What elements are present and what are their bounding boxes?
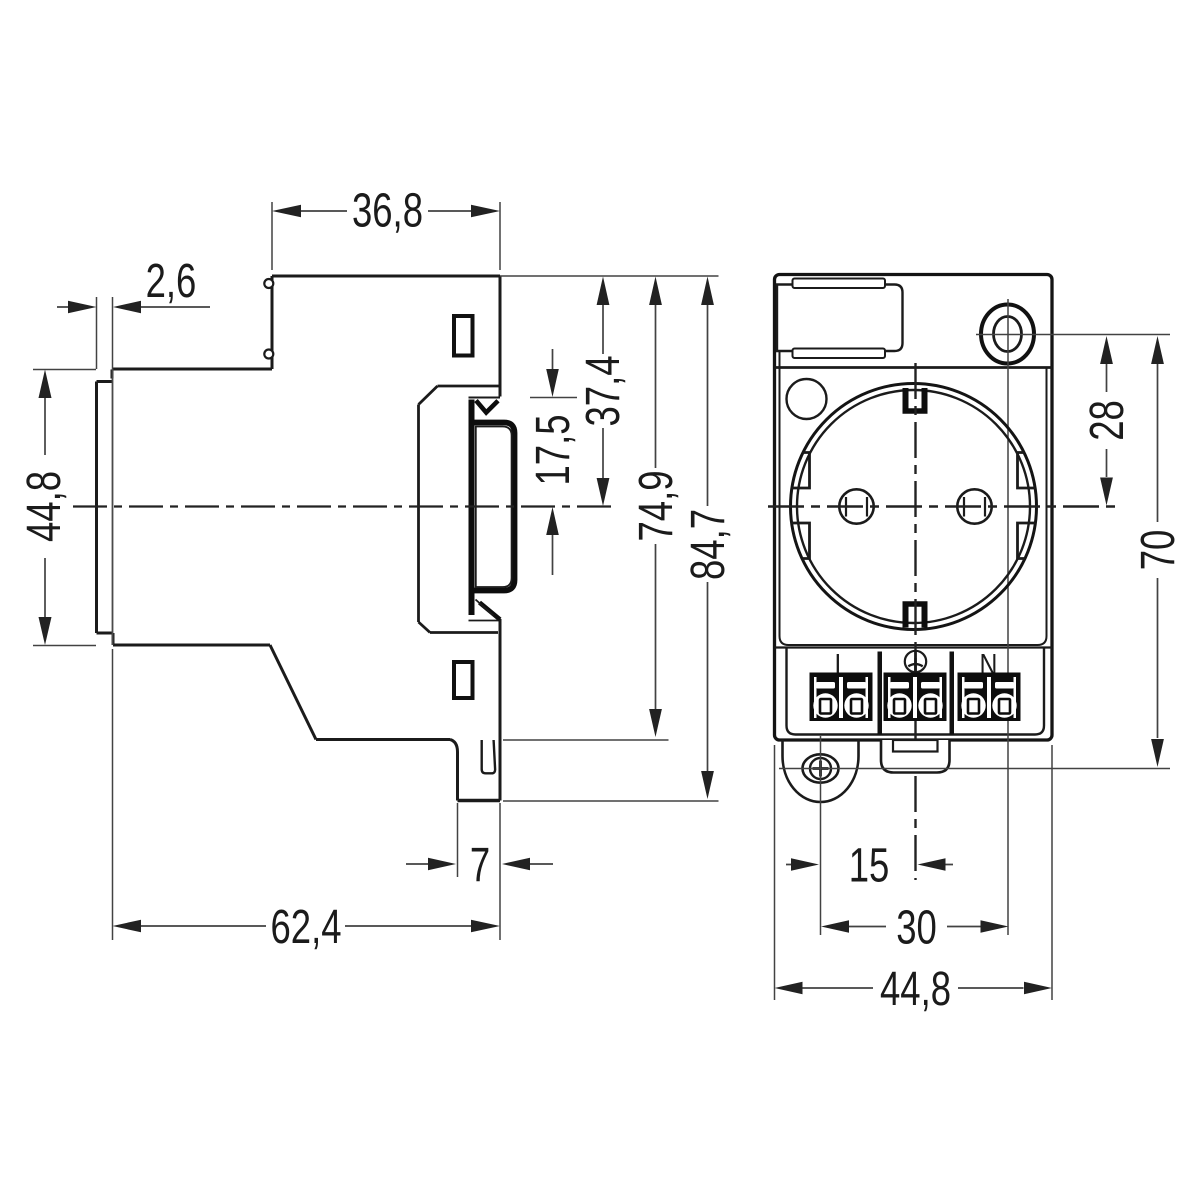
DIN rail profile thick xyxy=(472,400,515,620)
dim 15 line and arrows xyxy=(786,864,953,866)
svg-text:7: 7 xyxy=(470,838,490,892)
top screw horizontal line / 28-70 top extension xyxy=(976,334,1170,336)
dim 44,8 extension lines xyxy=(33,370,96,646)
svg-text:30: 30 xyxy=(896,901,937,955)
side view body outline top xyxy=(113,276,500,740)
side view centerline xyxy=(73,505,617,507)
dim 7 ext line xyxy=(457,803,459,877)
rail clip bar bottom xyxy=(793,349,886,359)
dim 84,7 ext line xyxy=(503,800,719,802)
dim 17,5 arrows xyxy=(552,349,554,575)
socket face inset outline xyxy=(780,369,1047,646)
svg-text:36,8: 36,8 xyxy=(352,184,423,238)
side view inner wall line xyxy=(112,369,114,645)
top section left inset line xyxy=(779,288,781,368)
svg-text:44,8: 44,8 xyxy=(17,471,71,542)
terminal section divider xyxy=(775,646,1053,648)
dim 44,8 line xyxy=(44,398,46,617)
earth pin hole left xyxy=(839,489,873,523)
DIN rail inner thin lines xyxy=(469,427,512,621)
socket top notch xyxy=(903,388,928,411)
side view hook underside xyxy=(469,397,501,399)
svg-text:44,8: 44,8 xyxy=(880,962,951,1016)
bottom screw center cross xyxy=(813,761,829,777)
side view upper slot xyxy=(454,316,473,356)
dim 7 line and arrows xyxy=(406,863,553,865)
bottom screw inner circle xyxy=(810,758,831,779)
bottom screw horizontal line / 70 bottom extension xyxy=(779,768,1170,770)
dim 36,8 extension lines xyxy=(272,202,500,270)
socket outer circle xyxy=(791,384,1037,630)
side view left wall xyxy=(97,370,114,646)
earth pin hole right xyxy=(957,489,991,523)
dim 84,7 line xyxy=(707,305,709,771)
svg-text:62,4: 62,4 xyxy=(271,900,342,954)
svg-text:15: 15 xyxy=(849,839,890,893)
dim 36,8 line xyxy=(301,210,471,212)
dim 30 line xyxy=(849,926,981,928)
dim 62,4 line xyxy=(141,925,471,927)
terminal group earth xyxy=(884,673,947,722)
svg-text:28: 28 xyxy=(1080,400,1134,441)
dim 17,5 extension tick xyxy=(530,397,577,399)
terminal group N xyxy=(958,673,1021,722)
bottom latch notch xyxy=(893,740,938,752)
horizontal centerline right view xyxy=(768,505,1117,507)
socket inner circle xyxy=(797,390,1030,623)
svg-text:70: 70 xyxy=(1131,530,1185,571)
socket bottom notch xyxy=(903,604,928,628)
earth symbol xyxy=(905,651,926,672)
top extension line right xyxy=(500,275,719,277)
terminal group L xyxy=(810,673,873,722)
svg-text:2,6: 2,6 xyxy=(146,254,197,308)
bottom latch xyxy=(881,740,950,773)
terminal inset outline xyxy=(787,648,1045,735)
dim 2,6 line and arrows xyxy=(57,306,210,308)
bottom screw boss outer xyxy=(783,740,859,803)
svg-text:74,9: 74,9 xyxy=(629,471,683,542)
dim 74,9 ext line xyxy=(503,739,669,741)
side view foot xyxy=(450,740,500,801)
bottom screw vertical line / 15-30 extension xyxy=(820,736,822,935)
side view left wall bumps xyxy=(264,279,273,359)
top screw vertical extension line xyxy=(1007,299,1009,935)
side view rail recess outline xyxy=(419,386,501,633)
dim 2,6 extension lines xyxy=(97,297,113,369)
svg-text:84,7: 84,7 xyxy=(681,509,735,580)
svg-text:17,5: 17,5 xyxy=(526,415,580,486)
dim 62,4 ext lines xyxy=(113,649,501,940)
svg-text:37,4: 37,4 xyxy=(576,356,630,427)
socket vertical centerline xyxy=(914,363,916,880)
top screw ellipses xyxy=(981,305,1034,364)
side view lower slot xyxy=(454,662,473,698)
top section divider xyxy=(775,366,1053,369)
dim 70 line xyxy=(1157,364,1159,738)
side view right edge lower xyxy=(499,619,502,801)
bottom screw middle ring xyxy=(803,754,839,782)
socket side brackets xyxy=(792,453,1036,559)
dim 44,8 line xyxy=(803,987,1024,989)
small hole top-left of socket xyxy=(787,379,827,419)
module outer rect xyxy=(775,275,1053,741)
dim 37,4 line xyxy=(602,305,604,478)
dim 74,9 line xyxy=(655,305,657,709)
dim 44,8 ext lines xyxy=(775,745,1053,1000)
dim 28 line xyxy=(1106,364,1108,477)
rail clip top left xyxy=(777,285,903,352)
rail clip bar top xyxy=(793,279,886,289)
terminal divider bar right xyxy=(950,652,955,735)
side view foot slot xyxy=(482,740,495,773)
terminal divider bar left xyxy=(878,652,883,735)
